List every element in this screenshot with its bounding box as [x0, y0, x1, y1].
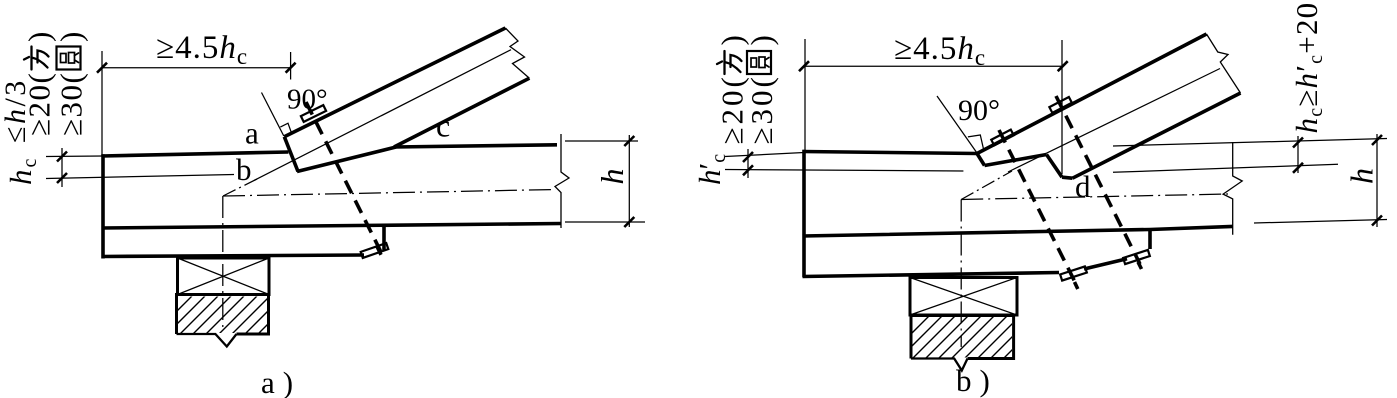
dim A hc: dimension line vertical — [61, 148, 63, 187]
diagonal A bottom edge — [394, 78, 529, 147]
column B hatched block border — [911, 316, 1014, 359]
label: <=h/3 rotated — [0, 78, 32, 143]
label: >=20(fang) rotated — [22, 32, 57, 136]
dim B h: tick bottom — [1372, 216, 1382, 226]
bolt A bottom washer plate — [361, 243, 389, 258]
dim A hc: tick bottom — [57, 173, 67, 183]
dim B top: tick left — [799, 61, 809, 71]
diagonal A axis thin line — [254, 50, 511, 181]
label: hc >= h'c+20 rotated — [1289, 2, 1327, 134]
beam B first tooth bottom — [985, 155, 1047, 166]
beam A left edge — [101, 154, 105, 258]
diagonal A break zigzag — [505, 28, 529, 78]
dim B h'c: dimension line vertical — [747, 149, 749, 178]
svg-text:h: h — [1344, 168, 1380, 184]
dim B top: extension line left — [804, 39, 806, 152]
svg-text:≥4.5hc: ≥4.5hc — [894, 31, 986, 70]
svg-text:≥20(: ≥20( — [22, 72, 57, 136]
dim A top: dimension line — [102, 67, 291, 69]
svg-text:≥30(: ≥30( — [54, 72, 89, 136]
90deg leader line A — [262, 93, 284, 137]
dim A top: tick right — [286, 63, 296, 73]
bolt B2 protruding end dash — [1138, 262, 1142, 269]
column B cap X diagonal 2 — [910, 278, 1017, 316]
svg-text:c: c — [436, 108, 450, 144]
dim B h'c: notch reference thin line — [725, 170, 963, 172]
label: hc rotated (dim A left) — [3, 157, 41, 185]
beam B centerline dash-dot — [961, 194, 1228, 200]
bolt A protruding end dash — [377, 246, 381, 255]
beam A front-bottom edge — [102, 224, 562, 229]
bolt A dashed line — [306, 102, 381, 251]
beam B top edge — [803, 152, 978, 154]
diagonal B break zigzag — [1207, 34, 1241, 93]
diagonal B axis dash-dot near node — [961, 171, 1012, 200]
diagonal A top edge — [284, 28, 505, 137]
90deg leader line B — [937, 96, 977, 153]
dim B right: extension line B (tooth bottom level) — [1113, 164, 1338, 172]
label: >=30(yuan) rotated B — [744, 35, 779, 144]
beam B front-bottom edge — [803, 226, 1233, 236]
column B hatched block bottom with break — [911, 359, 968, 371]
bolt B2 bottom washer plate — [1123, 250, 1150, 264]
dim B h: dimension line — [1376, 134, 1378, 227]
label: >=20(fang) rotated B — [715, 35, 750, 144]
beam A centerline dash-dot — [223, 190, 556, 197]
bolt B1 dashed line — [999, 130, 1076, 284]
beam B second tooth end face — [1047, 155, 1063, 178]
column A centerline dash-dot — [222, 196, 224, 328]
bolt B1 protruding end dash — [1075, 282, 1078, 289]
svg-text:d: d — [1075, 169, 1091, 204]
beam B back-bottom edge — [803, 273, 1060, 277]
diagonal B top edge — [977, 34, 1207, 154]
dim A top: extension line right — [290, 52, 292, 80]
bolt A top washer plate — [301, 105, 326, 122]
dim B top: tick right — [1058, 61, 1068, 71]
bolt B1 bottom washer plate — [1060, 266, 1087, 280]
dim A h: extension line bottom — [565, 221, 645, 223]
bolt B2 top washer plate — [1049, 97, 1071, 113]
beam B bottom strip step — [1084, 259, 1127, 269]
dim A top: tick left — [97, 63, 107, 73]
beam B break line (right end) — [1223, 142, 1242, 235]
beam A top edge left — [102, 152, 289, 156]
svg-text:): ) — [744, 35, 779, 45]
column A hatch lines — [148, 290, 315, 340]
column B centerline dash-dot — [960, 200, 962, 348]
dim A h: tick top — [624, 136, 634, 146]
diagonal B bottom edge — [1073, 93, 1241, 178]
label: >=30(yuan) rotated — [54, 32, 89, 136]
column B cap X diagonal 1 — [910, 278, 1017, 316]
dim A hc: tick top — [57, 152, 67, 162]
svg-text:b): b) — [956, 363, 998, 398]
column B hatch lines — [880, 310, 1065, 365]
dim A h: extension line top — [565, 140, 638, 142]
beam B left edge — [802, 150, 806, 277]
svg-text:90°: 90° — [958, 94, 1000, 127]
beam B second tooth bottom — [1062, 177, 1073, 178]
beam A back-bottom edge — [102, 255, 365, 257]
svg-text:): ) — [22, 32, 57, 42]
beam B first tooth end face — [977, 154, 985, 166]
dim B h'c: top reference line — [725, 153, 804, 157]
dim B right: extension line A (beam top level) — [1113, 139, 1387, 147]
dim B top: extension line right — [1061, 40, 1063, 174]
dim A h: dimension line — [628, 135, 630, 227]
svg-text:a): a) — [261, 365, 301, 398]
column A cap X-box — [178, 258, 270, 295]
bolt B1 top washer plate — [991, 130, 1013, 146]
svg-text:≥4.5hc: ≥4.5hc — [156, 30, 248, 69]
right-angle mark A — [280, 123, 291, 133]
svg-text:≥30(: ≥30( — [744, 74, 779, 144]
column A hatched block border — [177, 295, 269, 335]
dim A hc: top reference line — [46, 155, 103, 158]
diagonal B axis thin line — [1008, 69, 1220, 173]
label: h'c rotated (dim B left) — [692, 154, 730, 185]
diagonal A axis dash-dot near node — [223, 179, 258, 197]
bolt B2 dashed line — [1056, 96, 1140, 264]
svg-text:a: a — [245, 116, 259, 151]
beam A bottom strip closing edge — [382, 226, 386, 250]
svg-text:): ) — [54, 32, 89, 42]
column A cap X diagonal 1 — [178, 258, 270, 295]
beam A top edge right — [394, 145, 557, 147]
dim B hc: tick top — [1293, 138, 1303, 148]
column A hatched block bottom with break — [177, 334, 237, 347]
dim B top: dimension line — [804, 65, 1063, 67]
svg-text:90°: 90° — [287, 84, 328, 116]
beam B bottom strip closing edge — [1148, 231, 1152, 249]
dim A h: tick bottom — [624, 217, 634, 227]
beam A break line (right end) — [555, 134, 569, 228]
label: h rotated (dim B right) — [1344, 168, 1380, 184]
label: h rotated (dim A right) — [594, 169, 630, 185]
dim B h: tick top — [1372, 135, 1382, 145]
dim B hc: tick bottom — [1293, 163, 1303, 173]
beam A notch bottom line — [297, 147, 396, 172]
right-angle mark B — [968, 135, 984, 149]
beam A end-face of diagonal (notch face) — [284, 137, 298, 172]
dim B hc>=h'c+20: dimension line — [1297, 136, 1299, 173]
dim A hc: notch reference thin line — [46, 175, 234, 179]
dim B h'c: tick bottom — [743, 165, 753, 175]
dim B right: extension line C (beam bottom level) — [1254, 220, 1387, 224]
dim A top: extension line left — [101, 51, 103, 156]
column A cap X diagonal 2 — [178, 258, 270, 295]
column B cap X-box — [910, 278, 1017, 316]
dim B h'c: tick top — [743, 152, 753, 162]
svg-text:h: h — [594, 169, 630, 185]
svg-text:b: b — [236, 152, 252, 187]
